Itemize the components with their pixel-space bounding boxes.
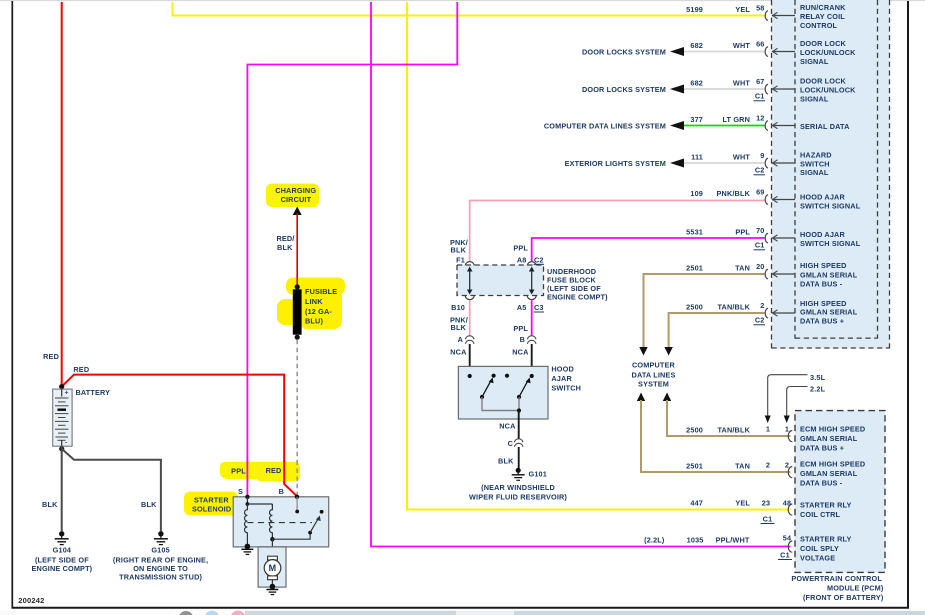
pin 58 label RUN/CRANK RELAY COIL CONTROL xyxy=(800,3,846,30)
arrow EXTERIOR LIGHTS SYSTEM xyxy=(565,159,684,169)
body control module U1 (right dashed block) xyxy=(772,0,890,349)
svg-text:BLK: BLK xyxy=(141,500,157,509)
svg-text:G105: G105 xyxy=(151,546,169,555)
svg-text:2: 2 xyxy=(760,301,764,310)
svg-text:SOLENOID: SOLENOID xyxy=(192,505,231,514)
pin 69 label HOOD AJAR SWITCH SIGNAL xyxy=(800,193,861,211)
motor brush top xyxy=(268,556,278,560)
svg-text:C2: C2 xyxy=(755,165,765,174)
pin 20 label HIGH SPEED GMLAN SERIAL DATA BUS - xyxy=(800,261,858,288)
svg-text:LOCK/UNLOCK: LOCK/UNLOCK xyxy=(800,48,856,57)
connector C2 label at A8 xyxy=(534,256,545,265)
taskbar icon 3 xyxy=(231,611,246,615)
svg-text:HIGH SPEED: HIGH SPEED xyxy=(800,299,847,308)
label NCA below switch xyxy=(499,422,516,431)
svg-text:SWITCH SIGNAL: SWITCH SIGNAL xyxy=(800,239,861,248)
svg-text:DOOR LOCK: DOOR LOCK xyxy=(800,39,847,48)
svg-text:67: 67 xyxy=(756,77,764,86)
svg-text:C1: C1 xyxy=(763,515,773,524)
svg-text:SIGNAL: SIGNAL xyxy=(800,57,829,66)
svg-text:MODULE (PCM): MODULE (PCM) xyxy=(827,584,884,593)
svg-text:-: - xyxy=(65,440,67,447)
svg-text:48: 48 xyxy=(783,499,791,508)
fusible link label FUSIBLE LINK (12 GA-BLU) xyxy=(305,287,337,326)
svg-text:C1: C1 xyxy=(780,551,790,560)
svg-text:COIL CTRL: COIL CTRL xyxy=(800,510,841,519)
wire 682 WHT (pin 67) xyxy=(684,79,765,90)
svg-text:2500: 2500 xyxy=(686,303,703,312)
svg-text:B: B xyxy=(520,335,525,344)
highlight starter solenoid label xyxy=(184,492,238,516)
wire PPL fuse block A5 to hood switch B xyxy=(531,301,533,336)
PCM pin 1 label ECM HIGH SPEED GMLAN SERIAL DATA BUS + xyxy=(800,425,865,453)
node B inner contact xyxy=(295,510,299,514)
svg-text:B10: B10 xyxy=(451,303,465,312)
svg-text:(NEAR WINDSHIELD: (NEAR WINDSHIELD xyxy=(481,483,555,492)
battery label xyxy=(76,388,111,397)
svg-text:BLK: BLK xyxy=(498,457,514,466)
svg-text:WHT: WHT xyxy=(733,41,750,50)
svg-text:TAN: TAN xyxy=(735,264,750,273)
svg-text:G101: G101 xyxy=(529,470,547,479)
pin 70 connector xyxy=(754,226,796,250)
svg-text:C1: C1 xyxy=(755,91,765,100)
PCM pin 54 connector xyxy=(778,534,792,560)
powertrain control module U2 (dashed box) xyxy=(795,411,885,573)
2.2L variant pointer xyxy=(784,385,826,424)
PCM pin 54 label STARTER RLY COIL SPLY VOLTAGE xyxy=(800,535,852,563)
wire dashed link to starter B xyxy=(296,340,298,512)
wire BLK to G101 xyxy=(498,447,519,468)
pin 66 connector xyxy=(756,40,795,57)
svg-text:POWERTRAIN CONTROL: POWERTRAIN CONTROL xyxy=(791,574,882,583)
svg-text:12: 12 xyxy=(756,114,764,123)
svg-text:LOCK/UNLOCK: LOCK/UNLOCK xyxy=(800,85,856,94)
pin F1 connector xyxy=(456,256,474,266)
PCM pin 2/2 connector xyxy=(766,461,792,478)
svg-text:2501: 2501 xyxy=(686,462,703,471)
svg-text:2501: 2501 xyxy=(686,264,703,273)
pin 20 connector xyxy=(756,262,795,279)
label STARTER SOLENOID xyxy=(192,496,231,514)
pin 69 connector xyxy=(756,188,795,205)
motor M1 xyxy=(264,560,281,577)
svg-text:1: 1 xyxy=(766,425,770,434)
pin 9 connector xyxy=(754,151,796,175)
svg-text:YEL: YEL xyxy=(735,499,750,508)
PCM pin 1/1 connector xyxy=(766,425,792,442)
svg-text:A: A xyxy=(458,335,464,344)
svg-text:(FRONT OF BATTERY): (FRONT OF BATTERY) xyxy=(803,593,884,602)
wire RED battery positive feed xyxy=(43,2,62,387)
svg-text:NCA: NCA xyxy=(450,348,467,357)
svg-text:69: 69 xyxy=(756,188,764,197)
svg-text:682: 682 xyxy=(690,79,703,88)
highlight fusible link xyxy=(277,278,345,330)
svg-text:RED: RED xyxy=(73,365,89,374)
ground G101 xyxy=(512,468,547,481)
solenoid coil feeds xyxy=(246,497,273,506)
svg-text:COIL SPLY: COIL SPLY xyxy=(800,544,839,553)
pin 9 label HAZARD SWITCH SIGNAL xyxy=(800,150,832,177)
frame bottom border xyxy=(12,607,910,609)
wire 2501 TAN lower run to PCM pin 2 xyxy=(641,400,791,472)
pin B10 connector xyxy=(451,296,474,312)
pin 58 connector xyxy=(756,4,795,21)
svg-text:DOOR LOCK: DOOR LOCK xyxy=(800,76,847,85)
svg-text:B: B xyxy=(279,487,284,496)
ground G101 location label xyxy=(469,483,567,502)
wire PPL over highlight xyxy=(246,460,248,483)
switch contacts and arms xyxy=(468,374,534,413)
svg-text:CIRCUIT: CIRCUIT xyxy=(281,195,312,204)
svg-text:5199: 5199 xyxy=(686,5,703,14)
wire BLK battery to G105 xyxy=(62,449,161,531)
pin 12 connector xyxy=(756,114,795,131)
battery BT1 xyxy=(53,389,72,446)
svg-text:GMLAN SERIAL: GMLAN SERIAL xyxy=(800,308,858,317)
svg-text:2500: 2500 xyxy=(686,426,703,435)
svg-text:C3: C3 xyxy=(534,303,544,312)
svg-text:SERIAL DATA: SERIAL DATA xyxy=(800,122,850,131)
svg-text:GMLAN SERIAL: GMLAN SERIAL xyxy=(800,270,858,279)
svg-text:M: M xyxy=(269,563,277,573)
svg-text:WIPER FLUID RESERVOIR): WIPER FLUID RESERVOIR) xyxy=(469,493,567,502)
svg-text:GMLAN SERIAL: GMLAN SERIAL xyxy=(800,469,858,478)
wire 447 YEL labels xyxy=(690,499,750,508)
wire RED/BLK over highlight xyxy=(296,276,298,287)
svg-text:TAN/BLK: TAN/BLK xyxy=(717,303,750,312)
wire 447 YEL starter relay coil ctrl xyxy=(407,2,791,510)
svg-text:YEL: YEL xyxy=(735,5,750,14)
highlight PPL RED labels xyxy=(220,462,300,482)
svg-text:377: 377 xyxy=(690,115,703,124)
svg-text:BLK: BLK xyxy=(42,500,58,509)
label CHARGING CIRCUIT (off-page) xyxy=(275,186,316,204)
label PNK/BLK above F1 xyxy=(450,238,468,255)
svg-text:DOOR LOCKS SYSTEM: DOOR LOCKS SYSTEM xyxy=(582,48,666,57)
svg-text:ECM HIGH SPEED: ECM HIGH SPEED xyxy=(800,460,865,469)
wire 2501 TAN labels (upper) xyxy=(686,264,750,273)
svg-text:A8: A8 xyxy=(517,256,527,265)
3.5L variant pointer xyxy=(765,373,826,423)
taskbar icon 1 xyxy=(179,611,194,615)
wire RED branch to starter B xyxy=(62,365,297,496)
connector C3 label at A5 xyxy=(534,303,545,312)
svg-text:682: 682 xyxy=(690,41,703,50)
wire PPL feed to starter solenoid S xyxy=(247,2,457,496)
highlight charging circuit xyxy=(266,184,319,208)
underhood fuse block body xyxy=(457,265,544,296)
hood ajar switch label xyxy=(551,365,581,393)
pin S label xyxy=(238,487,243,496)
svg-text:A5: A5 xyxy=(517,303,527,312)
wire 2500 TAN/BLK labels (upper) xyxy=(686,303,750,312)
node B xyxy=(295,495,299,499)
inline connector at hood switch pin B xyxy=(520,335,536,344)
svg-text:ENGINE COMPT): ENGINE COMPT) xyxy=(32,564,93,573)
svg-text:5531: 5531 xyxy=(686,228,703,237)
wire dashed over highlight xyxy=(296,461,298,484)
svg-text:111: 111 xyxy=(691,153,703,162)
svg-text:66: 66 xyxy=(756,40,764,49)
svg-text:54: 54 xyxy=(783,534,792,543)
pin 67 label DOOR LOCK LOCK/UNLOCK SIGNAL xyxy=(800,76,856,103)
node battery negative xyxy=(59,446,64,451)
wire 377 LT GRN xyxy=(684,115,765,126)
PCM pin 2 label ECM HIGH SPEED GMLAN SERIAL DATA BUS - xyxy=(800,460,865,488)
svg-text:NCA: NCA xyxy=(499,422,516,431)
pin 70 label HOOD AJAR SWITCH SIGNAL xyxy=(800,230,861,248)
svg-text:PPL/WHT: PPL/WHT xyxy=(716,536,750,545)
wire RED/BLK fusible link to charging circuit xyxy=(276,214,297,288)
svg-text:BATTERY: BATTERY xyxy=(76,388,111,397)
wire 1035 PPL/WHT starter relay coil supply xyxy=(371,2,791,547)
wire PNK/BLK fuse block B10 to hood switch A xyxy=(469,301,471,336)
svg-text:RED: RED xyxy=(43,352,59,361)
connector C-shell inside U1 (inner dashed box) xyxy=(795,0,878,339)
svg-text:COMPUTER: COMPUTER xyxy=(632,361,676,370)
svg-text:447: 447 xyxy=(690,499,703,508)
svg-text:70: 70 xyxy=(756,226,764,235)
coil L2 xyxy=(269,504,272,535)
svg-text:C: C xyxy=(508,439,514,448)
svg-text:EXTERIOR LIGHTS SYSTEM: EXTERIOR LIGHTS SYSTEM xyxy=(565,159,666,168)
wire 682 WHT (pin 66) xyxy=(684,41,765,52)
svg-text:1035: 1035 xyxy=(687,536,704,545)
svg-text:TRANSMISSION STUD): TRANSMISSION STUD) xyxy=(119,573,202,582)
taskbar strip xyxy=(0,611,925,615)
starter solenoid body xyxy=(233,497,329,547)
svg-text:23: 23 xyxy=(762,499,770,508)
inline connector pin C xyxy=(508,439,523,448)
starter motor body xyxy=(258,547,286,587)
svg-text:DOOR LOCKS SYSTEM: DOOR LOCKS SYSTEM xyxy=(582,85,666,94)
wire 2500 TAN/BLK labels (lower) xyxy=(686,426,750,435)
arrow down 2500 TAN/BLK to computer data lines xyxy=(664,347,672,356)
top toolbar edge line xyxy=(0,0,925,2)
svg-text:(12 GA-: (12 GA- xyxy=(305,307,332,316)
wire 1035 PPL/WHT labels xyxy=(644,536,750,545)
wire 5199 YEL run/crank xyxy=(173,2,765,16)
svg-text:STARTER RLY: STARTER RLY xyxy=(800,501,852,510)
wire to starter motor xyxy=(271,539,273,557)
wire RED over highlight xyxy=(283,460,285,483)
wire 2500 TAN/BLK to pin 2 xyxy=(669,313,765,348)
switch arm and contact xyxy=(310,510,323,533)
label NCA at pin A xyxy=(450,348,467,357)
pin 67 connector xyxy=(754,77,796,101)
svg-text:C2: C2 xyxy=(755,315,765,324)
wire B into switch xyxy=(531,344,533,376)
coil L1 xyxy=(244,504,247,535)
svg-text:S: S xyxy=(238,487,243,496)
svg-text:STARTER RLY: STARTER RLY xyxy=(800,535,852,544)
label COMPUTER DATA LINES SYSTEM (middle) xyxy=(632,361,676,389)
wire 5199 YEL labels xyxy=(686,5,750,14)
motor ground xyxy=(266,580,278,595)
label PPL below A5 xyxy=(513,324,528,333)
node battery positive xyxy=(59,384,64,389)
label NCA at pin B xyxy=(512,348,529,357)
svg-text:2.2L: 2.2L xyxy=(810,385,826,394)
arrow up from 2501 TAN (lower) xyxy=(637,393,645,402)
label PPL at starter xyxy=(231,467,246,476)
svg-text:LINK: LINK xyxy=(305,297,323,306)
fuse element arrow (right) inside fuse block xyxy=(529,267,535,295)
svg-text:+: + xyxy=(65,390,69,397)
wire 2501 TAN labels (lower) xyxy=(686,462,750,471)
wire 109 PNK/BLK labels xyxy=(690,189,750,198)
svg-text:SIGNAL: SIGNAL xyxy=(800,94,829,103)
label PPL above A8 xyxy=(513,244,528,253)
svg-text:BLK: BLK xyxy=(277,243,293,252)
svg-text:RED: RED xyxy=(266,466,282,475)
svg-text:1: 1 xyxy=(785,425,789,434)
svg-text:CONTROL: CONTROL xyxy=(800,21,838,30)
fusible link F-link xyxy=(293,284,302,340)
svg-text:HOOD: HOOD xyxy=(551,365,574,374)
svg-text:DATA BUS +: DATA BUS + xyxy=(800,444,844,453)
wire B to inner contact xyxy=(296,497,298,512)
coil L2 junction to switch xyxy=(270,531,312,542)
frame left border xyxy=(11,1,13,608)
pin 66 label DOOR LOCK LOCK/UNLOCK SIGNAL xyxy=(800,39,856,66)
frame right border xyxy=(907,1,909,608)
svg-text:WHT: WHT xyxy=(733,79,750,88)
svg-text:20: 20 xyxy=(756,262,764,271)
svg-text:PPL: PPL xyxy=(735,228,750,237)
arrow COMPUTER DATA LINES SYSTEM xyxy=(544,121,684,131)
svg-text:HIGH SPEED: HIGH SPEED xyxy=(800,261,847,270)
svg-text:DATA BUS +: DATA BUS + xyxy=(800,317,844,326)
ground G104 xyxy=(55,531,69,545)
pin B label xyxy=(279,487,284,496)
svg-text:RELAY COIL: RELAY COIL xyxy=(800,12,845,21)
svg-text:TAN/BLK: TAN/BLK xyxy=(717,426,750,435)
svg-text:FUSIBLE: FUSIBLE xyxy=(305,287,337,296)
inline connector at hood switch pin A xyxy=(458,335,474,344)
ground G105 xyxy=(154,531,168,545)
arrow up to charging circuit xyxy=(293,207,302,216)
svg-text:SIGNAL: SIGNAL xyxy=(800,168,829,177)
svg-text:BLK: BLK xyxy=(451,323,467,332)
fuse block label UNDERHOOD FUSE BLOCK (LEFT SIDE OF ENGINE COMPT) xyxy=(547,267,608,302)
svg-text:GMLAN SERIAL: GMLAN SERIAL xyxy=(800,434,858,443)
svg-text:PPL: PPL xyxy=(513,324,528,333)
svg-text:SYSTEM: SYSTEM xyxy=(638,379,669,388)
svg-text:HOOD AJAR: HOOD AJAR xyxy=(800,230,845,239)
svg-text:G104: G104 xyxy=(53,546,72,555)
diagram number 200242 xyxy=(18,596,44,605)
dashed actuation line xyxy=(247,522,312,524)
svg-text:WHT: WHT xyxy=(733,153,750,162)
svg-text:SWITCH: SWITCH xyxy=(551,384,581,393)
ground G104 label xyxy=(32,546,93,574)
pin 2 label HIGH SPEED GMLAN SERIAL DATA BUS + xyxy=(800,299,858,326)
svg-text:PPL: PPL xyxy=(513,244,528,253)
wire 5531 PPL hood ajar to pin 70 xyxy=(532,238,765,262)
svg-text:DATA BUS -: DATA BUS - xyxy=(800,479,843,488)
label PNK/BLK below B10 xyxy=(450,316,468,333)
arrow DOOR LOCKS SYSTEM (pin 67) xyxy=(582,85,684,95)
svg-text:STARTER: STARTER xyxy=(194,496,230,505)
fuse element arrow (left) inside fuse block xyxy=(467,267,473,295)
svg-text:C1: C1 xyxy=(755,240,765,249)
svg-text:AJAR: AJAR xyxy=(551,374,572,383)
arrow down 2501 TAN to computer data lines xyxy=(639,347,647,356)
label RED at starter xyxy=(266,466,282,475)
svg-text:SWITCH: SWITCH xyxy=(800,159,830,168)
pin A5 connector xyxy=(517,296,536,312)
svg-text:F1: F1 xyxy=(456,256,465,265)
svg-text:PNK/BLK: PNK/BLK xyxy=(717,189,751,198)
node S xyxy=(245,495,249,499)
wire BLK battery to G104 xyxy=(42,446,62,531)
wire 2500 TAN/BLK lower run to PCM pin 1 xyxy=(667,400,791,436)
wire A into switch xyxy=(469,344,471,376)
PCM caption POWERTRAIN CONTROL MODULE (PCM) (FRONT OF BATTERY) xyxy=(791,574,884,602)
svg-text:2: 2 xyxy=(766,461,770,470)
PCM pin 23/48 label STARTER RLY COIL CTRL xyxy=(800,501,852,520)
svg-text:ECM HIGH SPEED: ECM HIGH SPEED xyxy=(800,425,865,434)
svg-text:TAN: TAN xyxy=(735,462,750,471)
svg-text:DATA LINES: DATA LINES xyxy=(632,370,676,379)
svg-text:3.5L: 3.5L xyxy=(810,373,826,382)
svg-text:DATA BUS -: DATA BUS - xyxy=(800,279,843,288)
pin 12 label SERIAL DATA xyxy=(800,122,850,131)
svg-text:CHARGING: CHARGING xyxy=(275,186,316,195)
pin 2 connector xyxy=(754,301,796,325)
coil L1 to case ground xyxy=(241,536,253,555)
svg-text:HAZARD: HAZARD xyxy=(800,150,832,159)
svg-text:LT GRN: LT GRN xyxy=(722,115,750,124)
arrow up from 2500 TAN/BLK (lower) xyxy=(663,393,671,402)
wire 2501 TAN to pin 20 xyxy=(644,274,765,348)
svg-text:VOLTAGE: VOLTAGE xyxy=(800,554,835,563)
svg-text:RED/: RED/ xyxy=(276,234,294,243)
svg-text:58: 58 xyxy=(756,4,764,13)
svg-text:ENGINE COMPT): ENGINE COMPT) xyxy=(547,292,608,301)
wire 109 PNK/BLK hood ajar to pin 69 xyxy=(470,201,765,262)
svg-text:BLK: BLK xyxy=(451,246,467,255)
PCM pin 23/48 connector xyxy=(761,499,793,524)
svg-text:(2.2L): (2.2L) xyxy=(644,536,665,545)
wire 111 WHT xyxy=(684,153,765,164)
svg-text:PPL: PPL xyxy=(231,467,246,476)
arrow DOOR LOCKS SYSTEM (pin 66) xyxy=(582,47,684,57)
motor brush bottom xyxy=(268,576,278,580)
wire NCA from switch to pin C xyxy=(518,411,520,439)
svg-text:109: 109 xyxy=(690,189,703,198)
svg-text:COMPUTER DATA LINES SYSTEM: COMPUTER DATA LINES SYSTEM xyxy=(544,122,666,131)
svg-text:HOOD AJAR: HOOD AJAR xyxy=(800,193,845,202)
hood ajar switch body xyxy=(458,366,548,419)
svg-text:C2: C2 xyxy=(534,256,544,265)
svg-text:BLU): BLU) xyxy=(305,317,323,326)
svg-text:RUN/CRANK: RUN/CRANK xyxy=(800,3,846,12)
svg-text:2: 2 xyxy=(785,461,789,470)
svg-text:200242: 200242 xyxy=(18,596,44,605)
svg-text:NCA: NCA xyxy=(512,348,529,357)
svg-text:SWITCH SIGNAL: SWITCH SIGNAL xyxy=(800,202,861,211)
taskbar icon 2 xyxy=(205,611,220,615)
svg-text:9: 9 xyxy=(760,151,764,160)
wire 5531 PPL labels xyxy=(686,228,750,237)
ground G105 label xyxy=(113,546,208,582)
pin A8 connector xyxy=(517,256,536,266)
